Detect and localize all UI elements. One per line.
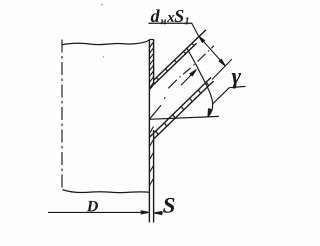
branch pipe lower wall outer line — [154, 81, 214, 139]
branch centerline (dash-dot) — [150, 46, 214, 119]
branch lower wall extension line to dimension — [212, 59, 232, 79]
gamma label — [232, 73, 241, 88]
label S1 — [175, 10, 184, 22]
branch pipe lower wall bore line — [149, 78, 211, 138]
upper break line (wavy) — [62, 40, 149, 45]
gamma label shelf — [229, 86, 245, 87]
angle leg line with arrowhead — [181, 71, 195, 86]
main pipe wall inner line — [148, 40, 150, 223]
lower break line (wavy) — [62, 190, 149, 193]
scan speck dots — [101, 4, 103, 6]
dimension upper arrowhead — [198, 36, 204, 43]
branch pipe upper wall outer line (with extension) — [154, 30, 206, 81]
branch lower wall hatching — [156, 82, 209, 135]
main wall section hatching (lower) — [150, 127, 154, 186]
label x — [167, 15, 174, 22]
dimension lower arrowhead — [219, 59, 225, 66]
D dimension line with arrowhead — [48, 211, 149, 213]
arc lower arrowhead — [208, 109, 212, 117]
label dn — [151, 9, 160, 22]
main pipe wall outer line (above branch opening) — [153, 39, 155, 84]
gamma leader line — [213, 88, 229, 104]
branch upper wall hatching — [156, 43, 194, 79]
label underline — [148, 22, 191, 24]
dn x S1 dimension line — [192, 23, 226, 66]
branch pipe upper wall bore line — [154, 43, 197, 84]
wall top edge — [149, 39, 153, 41]
angle dimension arc — [187, 48, 213, 117]
branch upper bore line wall crossing — [149, 85, 153, 90]
label D — [87, 201, 98, 212]
main pipe axis centerline — [61, 40, 63, 192]
main pipe wall outer line (below branch opening) — [153, 130, 155, 223]
label S — [163, 198, 174, 213]
angle reference horizontal line — [149, 116, 219, 119]
S dimension line with arrowhead — [154, 212, 163, 214]
main wall section hatching (upper) — [150, 42, 154, 88]
